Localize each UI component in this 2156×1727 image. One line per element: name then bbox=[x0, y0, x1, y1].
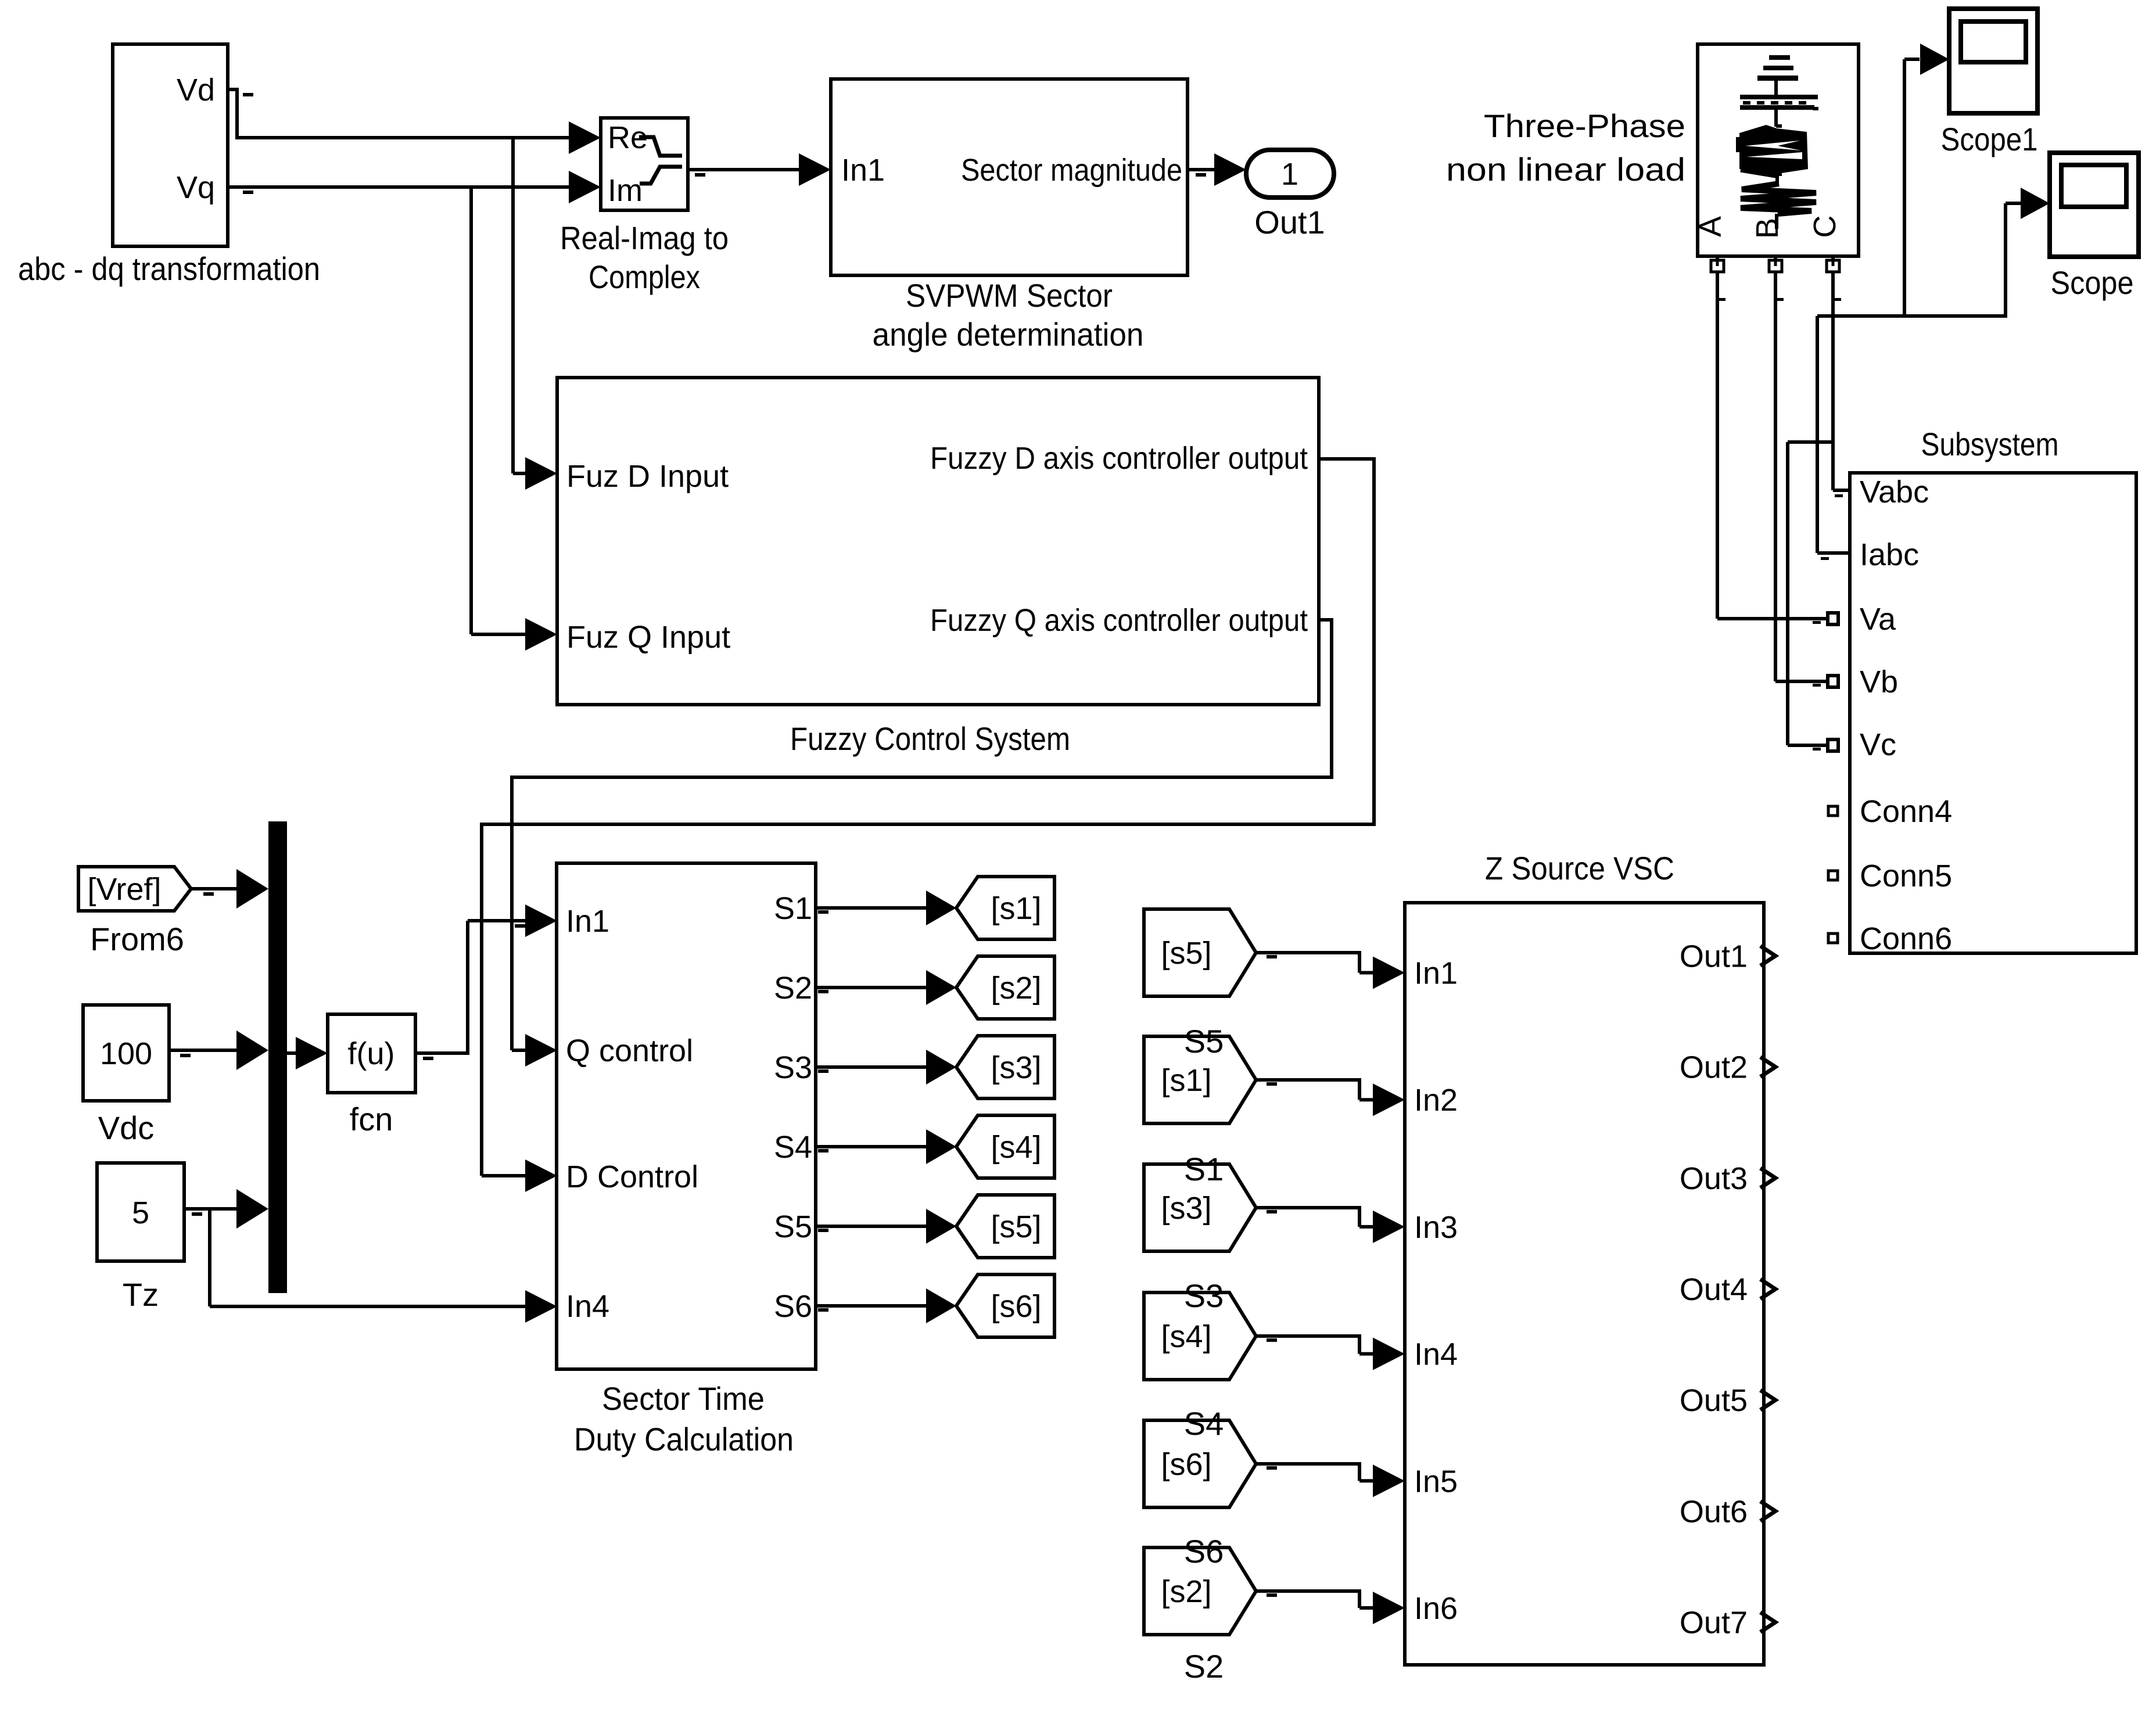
block abc-dq transformation bbox=[18, 44, 320, 287]
svg-text:[s1]: [s1] bbox=[991, 891, 1041, 926]
svg-text:[s1]: [s1] bbox=[1161, 1063, 1211, 1098]
block Fuzzy Control System bbox=[557, 378, 1319, 757]
svg-text:[s2]: [s2] bbox=[991, 971, 1041, 1006]
svg-text:[s2]: [s2] bbox=[1161, 1574, 1211, 1609]
wire S5 to goto [s5] bbox=[816, 1209, 956, 1244]
output port Out1 bbox=[1246, 150, 1334, 240]
svg-text:S3: S3 bbox=[774, 1050, 812, 1085]
svg-text:[s6]: [s6] bbox=[1161, 1447, 1211, 1482]
svg-text:Va: Va bbox=[1860, 602, 1896, 637]
svg-text:[Vref]: [Vref] bbox=[87, 872, 161, 907]
svg-text:Sector Time: Sector Time bbox=[602, 1380, 765, 1417]
wire Real-Imag output to SVPWM In1 bbox=[688, 153, 831, 186]
wire [s4] to In4 of Z Source VSC bbox=[1256, 1334, 1405, 1370]
svg-text:Conn5: Conn5 bbox=[1860, 859, 1952, 893]
wire [s6] to In5 of Z Source VSC bbox=[1256, 1462, 1405, 1497]
svg-text:Iabc: Iabc bbox=[1860, 537, 1919, 572]
svg-text:S1: S1 bbox=[1184, 1151, 1224, 1187]
svg-text:In4: In4 bbox=[566, 1289, 609, 1324]
svg-text:Vabc: Vabc bbox=[1860, 475, 1929, 509]
wire [s2] to In6 of Z Source VSC bbox=[1256, 1589, 1405, 1624]
wire Fuzzy Q axis output to Q control bbox=[510, 618, 1333, 1067]
svg-text:[s3]: [s3] bbox=[991, 1050, 1041, 1085]
wire Fuzzy D axis output to D Control bbox=[480, 457, 1376, 1192]
svg-text:In1: In1 bbox=[1414, 956, 1458, 991]
svg-text:100: 100 bbox=[100, 1036, 152, 1071]
svg-text:Vb: Vb bbox=[1860, 665, 1898, 699]
svg-text:Fuzzy Control System: Fuzzy Control System bbox=[790, 720, 1070, 757]
from tag [s6] / S6 bbox=[1144, 1420, 1256, 1570]
svg-text:[s4]: [s4] bbox=[1161, 1319, 1211, 1354]
svg-text:1: 1 bbox=[1281, 157, 1298, 192]
wire fcn output to In1 of Sector Time bbox=[415, 904, 557, 1060]
svg-text:[s3]: [s3] bbox=[1161, 1191, 1211, 1226]
goto tag [s6] bbox=[956, 1274, 1054, 1337]
from tag [s5] / S5 bbox=[1144, 909, 1256, 1060]
svg-text:Three-Phase: Three-Phase bbox=[1484, 107, 1685, 144]
node Vq tap junction / wire to Fuz Q Input bbox=[471, 185, 557, 651]
svg-text:Tz: Tz bbox=[123, 1276, 159, 1313]
block fcn f(u) bbox=[328, 1014, 415, 1137]
svg-text:SVPWM Sector: SVPWM Sector bbox=[906, 277, 1113, 314]
svg-text:In5: In5 bbox=[1414, 1464, 1458, 1499]
svg-text:Scope: Scope bbox=[2051, 264, 2134, 301]
svg-text:In1: In1 bbox=[566, 904, 609, 939]
wire [Vref] to mux bbox=[191, 869, 268, 909]
svg-text:Sector magnitude: Sector magnitude bbox=[961, 153, 1182, 188]
svg-text:Out6: Out6 bbox=[1680, 1494, 1748, 1529]
svg-text:non linear load: non linear load bbox=[1446, 151, 1685, 188]
svg-text:Z Source VSC: Z Source VSC bbox=[1485, 850, 1674, 886]
wire phase A to Va bbox=[1717, 272, 1828, 619]
svg-text:Conn6: Conn6 bbox=[1860, 921, 1952, 956]
scope block Scope bbox=[2050, 153, 2139, 301]
port C of load bbox=[1827, 256, 1839, 272]
wire phase B to Vb bbox=[1775, 272, 1828, 681]
svg-text:In4: In4 bbox=[1414, 1337, 1458, 1372]
wire [s3] to In3 of Z Source VSC bbox=[1256, 1206, 1405, 1243]
wire S2 to goto [s2] bbox=[816, 970, 956, 1005]
svg-text:Out7: Out7 bbox=[1680, 1606, 1748, 1640]
svg-text:S5: S5 bbox=[1184, 1023, 1224, 1060]
svg-text:Fuzzy Q axis controller outp: Fuzzy Q axis controller output bbox=[930, 603, 1308, 638]
wire Vdc to mux bbox=[169, 1031, 268, 1070]
svg-text:D Control: D Control bbox=[566, 1159, 698, 1194]
svg-text:[s4]: [s4] bbox=[991, 1130, 1041, 1165]
wire [s1] to In2 of Z Source VSC bbox=[1256, 1078, 1405, 1116]
constant block Tz = 5 bbox=[97, 1163, 184, 1313]
svg-text:Out3: Out3 bbox=[1680, 1161, 1748, 1196]
from tag [s2] / S2 bbox=[1144, 1548, 1256, 1685]
svg-text:Out2: Out2 bbox=[1680, 1050, 1748, 1085]
block Three-Phase non linear load bbox=[1446, 44, 1859, 256]
svg-text:Vc: Vc bbox=[1860, 727, 1896, 762]
svg-text:In2: In2 bbox=[1414, 1083, 1458, 1118]
svg-text:Fuz D Input: Fuz D Input bbox=[566, 459, 729, 494]
svg-text:Vd: Vd bbox=[177, 73, 215, 107]
svg-text:Vq: Vq bbox=[177, 170, 215, 205]
svg-text:S3: S3 bbox=[1184, 1277, 1224, 1314]
goto tag [s1] bbox=[956, 877, 1054, 939]
wire SVPWM output to Out1 bbox=[1188, 153, 1246, 186]
svg-text:S2: S2 bbox=[1184, 1648, 1224, 1685]
svg-text:fcn: fcn bbox=[350, 1101, 393, 1137]
svg-text:In1: In1 bbox=[841, 153, 885, 188]
wire S3 to goto [s3] bbox=[816, 1050, 956, 1085]
svg-text:Out1: Out1 bbox=[1254, 204, 1325, 240]
svg-text:B: B bbox=[1750, 218, 1785, 239]
svg-text:Real-Imag to: Real-Imag to bbox=[560, 220, 729, 256]
svg-text:In6: In6 bbox=[1414, 1591, 1458, 1626]
constant block Vdc = 100 bbox=[83, 1005, 169, 1146]
wire [s5] to In1 of Z Source VSC bbox=[1256, 951, 1405, 989]
svg-text:C: C bbox=[1807, 216, 1842, 238]
goto tag [s3] bbox=[956, 1036, 1054, 1098]
block SVPWM Sector angle determination bbox=[831, 79, 1188, 353]
svg-text:Im: Im bbox=[608, 173, 643, 208]
svg-text:S4: S4 bbox=[1184, 1405, 1224, 1442]
svg-text:Conn4: Conn4 bbox=[1860, 794, 1952, 829]
svg-text:S1: S1 bbox=[774, 891, 812, 926]
wire mux to fcn bbox=[287, 1037, 328, 1069]
svg-text:Duty Calculation: Duty Calculation bbox=[574, 1421, 794, 1457]
svg-text:S5: S5 bbox=[774, 1209, 812, 1244]
wire C branch to scopes and Iabc bbox=[1817, 44, 2050, 553]
svg-text:angle determination: angle determination bbox=[873, 316, 1144, 353]
svg-text:Complex: Complex bbox=[589, 258, 700, 295]
svg-text:Scope1: Scope1 bbox=[1941, 121, 2038, 157]
svg-text:Vdc: Vdc bbox=[98, 1110, 155, 1146]
svg-text:Subsystem: Subsystem bbox=[1921, 426, 2059, 462]
port A of load bbox=[1711, 256, 1724, 272]
wire S4 to goto [s4] bbox=[816, 1129, 956, 1164]
wire Vd output to Re input bbox=[228, 88, 601, 154]
wire Tz branch to In4 bbox=[210, 1209, 557, 1323]
wire phase C to Vabc bbox=[1833, 272, 1850, 490]
block Real-Imag to Complex bbox=[560, 118, 729, 295]
svg-text:A: A bbox=[1693, 216, 1728, 237]
svg-text:[s5]: [s5] bbox=[991, 1209, 1041, 1244]
port B of load bbox=[1769, 256, 1782, 272]
svg-text:[s5]: [s5] bbox=[1161, 936, 1211, 971]
wire S1 to goto [s1] bbox=[816, 891, 956, 925]
block Subsystem with ports bbox=[1813, 426, 2136, 956]
block Sector Time Duty Calculation bbox=[557, 863, 816, 1457]
goto tag [s5] bbox=[956, 1195, 1054, 1258]
node Vd tap junction / wire to Fuz D Input bbox=[513, 136, 557, 490]
from tag [Vref] / From6 bbox=[78, 867, 191, 957]
wire Tz to mux and junction bbox=[184, 1189, 268, 1229]
svg-text:5: 5 bbox=[132, 1195, 149, 1230]
svg-text:abc - dq transformation: abc - dq transformation bbox=[18, 250, 320, 287]
svg-text:In3: In3 bbox=[1414, 1210, 1458, 1245]
svg-text:S6: S6 bbox=[1184, 1533, 1224, 1570]
svg-text:S6: S6 bbox=[774, 1289, 812, 1324]
svg-text:Fuzzy D axis controller outp: Fuzzy D axis controller output bbox=[930, 441, 1308, 476]
wire Vq output to Im input bbox=[228, 171, 601, 203]
goto tag [s2] bbox=[956, 956, 1054, 1019]
svg-text:[s6]: [s6] bbox=[991, 1289, 1041, 1324]
svg-text:S2: S2 bbox=[774, 971, 812, 1006]
goto tag [s4] bbox=[956, 1115, 1054, 1178]
from tag [s3] / S3 bbox=[1144, 1164, 1256, 1314]
mux bar bbox=[268, 821, 287, 1293]
svg-text:f(u): f(u) bbox=[348, 1036, 395, 1071]
svg-text:Q control: Q control bbox=[566, 1033, 693, 1068]
from tag [s1] / S1 bbox=[1144, 1036, 1256, 1187]
wire S6 to goto [s6] bbox=[816, 1288, 956, 1323]
svg-text:S4: S4 bbox=[774, 1130, 812, 1165]
svg-text:Fuz Q Input: Fuz Q Input bbox=[566, 620, 730, 655]
svg-text:Out5: Out5 bbox=[1680, 1383, 1748, 1418]
block Z Source VSC bbox=[1405, 850, 1775, 1665]
svg-text:Out1: Out1 bbox=[1680, 939, 1748, 974]
from tag [s4] / S4 bbox=[1144, 1292, 1256, 1442]
svg-text:From6: From6 bbox=[90, 921, 184, 957]
wire C branch to Vc bbox=[1788, 442, 1833, 745]
svg-text:Out4: Out4 bbox=[1680, 1272, 1748, 1307]
scope block Scope1 bbox=[1941, 9, 2038, 157]
